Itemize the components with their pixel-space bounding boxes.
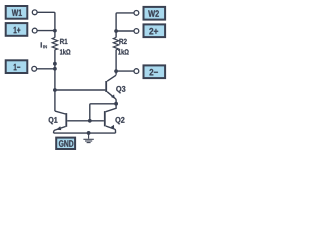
resistor R2 value 1kOhm: [118, 49, 128, 54]
wire node D to Q3 base: [55, 89, 106, 91]
wire 2- to node H: [116, 70, 134, 72]
node E junction dot (base rail tap): [88, 119, 92, 123]
terminal box 1-: [6, 60, 28, 73]
wire 2+ to node G: [116, 30, 134, 32]
node A junction dot (1+ / W1 / R1): [53, 29, 57, 33]
transistor Q1 label: [49, 117, 58, 124]
resistor R1 label: [60, 39, 67, 44]
terminal box 2-: [144, 65, 166, 78]
wire R1 bottom lead down left rail: [54, 50, 56, 112]
resistor R2 label: [119, 39, 126, 44]
current label I_IN: [41, 42, 42, 47]
terminal box W2: [144, 7, 166, 20]
node C junction dot (1- tap): [53, 67, 57, 71]
terminal box GND: [56, 138, 75, 149]
node D junction dot (Q3 base tap): [53, 88, 57, 92]
node B junction dot (below R1): [53, 62, 57, 66]
wire R2 top lead: [115, 31, 117, 38]
wire 1- to node C: [37, 68, 55, 70]
node I junction dot (ground tap): [87, 131, 91, 135]
transistor Q1: [54, 111, 67, 133]
wire W2 to right rail: [116, 13, 134, 31]
terminal circle 2+: [134, 29, 139, 34]
wire 1+ to node A: [37, 30, 55, 32]
node F junction dot (Q3 emitter / Q2 collector): [114, 102, 118, 106]
resistor R2 zigzag: [113, 37, 118, 49]
node G junction dot (2+ / W2 / R2): [114, 29, 118, 33]
transistor Q2: [105, 104, 116, 133]
ground symbol: [83, 133, 93, 143]
terminal circle 1-: [32, 66, 37, 71]
wire base rail up to collector tie: [90, 104, 116, 121]
wire W1 to left rail: [37, 12, 55, 30]
transistor Q2 label: [115, 117, 124, 124]
wire R1 top lead: [54, 31, 56, 38]
terminal circle W2: [134, 11, 139, 16]
terminal circle 2-: [134, 69, 139, 74]
terminal box 1+: [6, 23, 28, 36]
terminal box W1: [6, 6, 28, 19]
node H junction dot (2- tap): [114, 69, 118, 73]
resistor R1 zigzag: [52, 37, 57, 49]
wire ground rail: [54, 132, 116, 134]
resistor R1 value 1kOhm: [60, 49, 70, 54]
transistor Q3 label: [116, 86, 125, 93]
terminal circle 1+: [32, 28, 37, 33]
transistor Q3: [106, 75, 116, 104]
wire Q1 base to Q2 base: [67, 120, 104, 122]
terminal circle W1: [32, 10, 37, 15]
wire R2 bottom lead to node H: [115, 50, 117, 75]
terminal box 2+: [144, 24, 166, 37]
